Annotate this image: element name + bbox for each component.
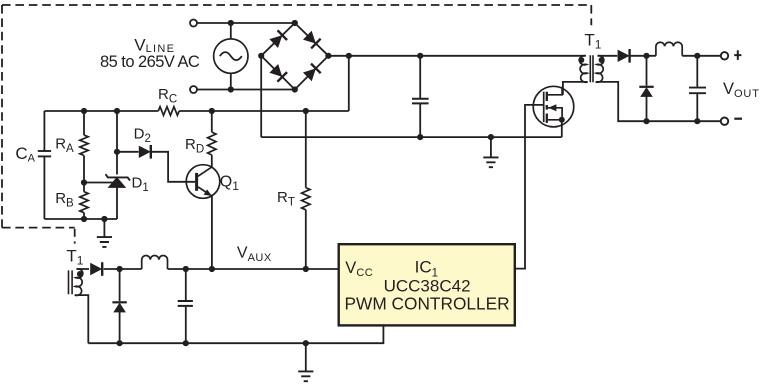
diode aux rectifier (90, 262, 102, 276)
wire RB bottom (83, 213, 85, 219)
wire D2 cathode to Q1 base (151, 152, 195, 182)
junction AC source top (228, 20, 234, 26)
wire top AC rail (197, 22, 294, 24)
inductor output (656, 42, 682, 56)
svg-text:D2: D2 (134, 126, 151, 146)
junction D2 branch top (114, 108, 120, 114)
wire aux bottom rail (88, 325, 383, 343)
wire AC source bottom stem (230, 73, 232, 89)
wire bottom node rail (44, 218, 117, 220)
transistor Q1 (186, 165, 220, 199)
wire zener bottom (116, 187, 118, 219)
terminal output minus (721, 118, 728, 125)
junction aux diode cathode (117, 266, 123, 272)
transformer T1 aux core (69, 270, 73, 294)
wire D2 anode (117, 151, 139, 153)
junction freewheel anode (643, 118, 649, 124)
svg-text:VLINE: VLINE (134, 36, 175, 55)
wire inductor to plus terminal (682, 55, 720, 57)
wire aux winding bottom (75, 295, 89, 343)
ground aux rail (298, 371, 313, 381)
wire secondary top to output diode (598, 55, 618, 57)
wire startup rail left of RC (44, 110, 158, 112)
svg-text:RD: RD (185, 136, 204, 156)
transformer T1 main core (590, 55, 593, 82)
svg-text:Q1: Q1 (220, 174, 239, 194)
junction aux ground (303, 340, 309, 346)
wire primary bottom to drain (563, 82, 588, 95)
svg-text:CA: CA (15, 144, 35, 165)
wire RT bottom (305, 210, 307, 269)
wire secondary bottom to output return (596, 82, 721, 121)
resistor RC (158, 107, 179, 116)
terminal output plus (721, 52, 728, 59)
junction bulk cap bottom (417, 134, 423, 140)
svg-text:PWM CONTROLLER: PWM CONTROLLER (345, 293, 510, 313)
wire RT top (305, 111, 307, 188)
junction RT top (303, 108, 309, 114)
junction output cap bottom (694, 118, 700, 124)
wire CA top (43, 111, 45, 151)
wire D2 branch down (116, 111, 118, 152)
svg-text:VOUT: VOUT (723, 80, 760, 100)
junction D2 anode (114, 149, 120, 155)
junction aux cap top (183, 266, 189, 272)
wire Q1 emitter down (211, 196, 213, 269)
wire aux diode2 top (119, 269, 121, 301)
wire ground stem aux (305, 343, 307, 371)
bridge diode top-right (303, 30, 321, 48)
wire output cap top (696, 56, 698, 87)
junction RD top (209, 108, 215, 114)
svg-text:T1: T1 (584, 31, 601, 52)
ground main rail (483, 157, 498, 167)
junction bulk cap top (417, 53, 423, 59)
transformer T1 aux polarity dot (77, 271, 83, 277)
diode D2 (139, 145, 151, 159)
svg-text:T1: T1 (66, 246, 83, 267)
wire AC source top stem (230, 23, 232, 39)
AC source VLINE (214, 39, 248, 73)
transformer T1 main secondary winding (596, 56, 604, 83)
wire RA top (83, 111, 85, 135)
diode freewheel output (639, 87, 653, 97)
resistor RT (302, 188, 310, 210)
junction bridge right vertex DC+ (325, 53, 331, 59)
wire freewheel diode top (646, 56, 648, 86)
diode aux shunt (112, 302, 126, 312)
wire freewheel diode bottom (646, 96, 648, 121)
svg-text:RT: RT (277, 189, 295, 209)
svg-text:RB: RB (55, 190, 74, 210)
wire startup rail right of RC (179, 110, 349, 112)
wire CA bottom (43, 156, 45, 219)
IC1 box (339, 244, 515, 325)
wire DC+ rail to transformer (328, 55, 585, 57)
junction bridge top vertex (292, 20, 298, 26)
svg-text:D1: D1 (132, 175, 149, 195)
junction AC source bottom (228, 86, 234, 92)
capacitor aux (178, 301, 193, 306)
zener D1 (106, 174, 130, 187)
bridge diamond wires (261, 23, 328, 90)
diode output rectifier (618, 49, 630, 63)
svg-text:RA: RA (55, 136, 74, 156)
wire aux cap bottom (185, 307, 187, 343)
svg-text:RC: RC (158, 86, 177, 106)
junction RT bottom at VAUX (303, 266, 309, 272)
terminal AC top (190, 20, 197, 27)
transformer T1 polarity dot secondary (599, 57, 605, 63)
wire aux diode to inductor (104, 268, 142, 270)
wire output diode to inductor (630, 55, 656, 57)
wire DC minus down from bridge (260, 56, 262, 137)
junction Q1 emitter at VAUX (209, 266, 215, 272)
junction bridge left vertex DC- (258, 53, 264, 59)
wire ground stem primary (490, 137, 492, 157)
wire zener top (116, 152, 118, 175)
wire DC minus bottom rail (261, 136, 562, 138)
junction RB bottom (81, 216, 87, 222)
bridge diode bottom-right (303, 64, 321, 82)
svg-text:85 to 265V AC: 85 to 265V AC (100, 53, 200, 71)
wire RA-RB junction (83, 156, 85, 192)
wire DC+ branch down (348, 56, 350, 111)
junction DC+ startup branch (346, 53, 352, 59)
junction output cap top (694, 53, 700, 59)
dashed enclosure border (2, 5, 591, 244)
junction aux cap bottom (183, 340, 189, 346)
capacitor bulk (412, 99, 429, 104)
transformer T1 polarity dot primary (578, 57, 584, 63)
junction primary ground (488, 134, 494, 140)
wire junction to zener anode (84, 182, 113, 184)
wire aux diode2 bottom (119, 312, 121, 343)
junction bridge bottom vertex (292, 86, 298, 92)
wire gate drive from IC (515, 105, 544, 269)
wire RD top (211, 111, 213, 132)
bridge diode top-left (269, 30, 287, 48)
label plus (734, 50, 741, 60)
wire bottom AC rail (197, 89, 294, 91)
resistor RA (80, 135, 88, 155)
resistor RB (80, 192, 88, 213)
junction RA-RB (81, 179, 87, 185)
transformer T1 aux winding (75, 269, 83, 296)
wire output cap bottom (696, 94, 698, 121)
wire ground stem left (103, 219, 105, 237)
wire RD to Q1 collector (211, 155, 213, 167)
terminal AC bottom (190, 86, 197, 93)
wire aux inductor to IC (168, 268, 339, 270)
transformer T1 main primary winding (580, 56, 588, 83)
label minus (734, 118, 742, 120)
MOSFET switch (533, 86, 574, 127)
junction ground node A (101, 216, 107, 222)
junction aux shunt diode bottom (117, 340, 123, 346)
capacitor output (689, 88, 706, 94)
inductor aux (142, 255, 168, 269)
capacitor CA (38, 151, 51, 156)
wire bulk cap top (419, 56, 421, 99)
ground left node (97, 237, 112, 247)
svg-text:VAUX: VAUX (237, 244, 272, 264)
junction RA top (81, 108, 87, 114)
junction freewheel cathode (643, 53, 649, 59)
resistor RD (208, 132, 216, 155)
wire mosfet source down (561, 120, 563, 137)
bridge diode bottom-left (269, 64, 287, 82)
wire aux cap top (185, 269, 187, 300)
wire aux winding top to diode (77, 268, 90, 270)
wire bulk cap bottom (419, 104, 421, 138)
